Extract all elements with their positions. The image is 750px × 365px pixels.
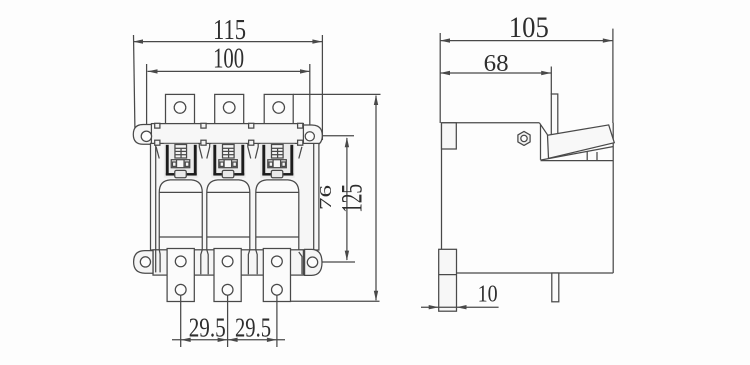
top terminal tab 1 xyxy=(166,94,195,123)
dim 76 bottom extension line (from right ear) xyxy=(318,261,356,263)
dim 100 extension line left xyxy=(146,64,148,133)
side body outline xyxy=(442,122,540,124)
dim 105 extension left xyxy=(439,33,441,123)
bottom bar left ear xyxy=(134,251,153,274)
svg-text:68: 68 xyxy=(484,51,509,77)
top bar small squares bottom row xyxy=(155,140,160,145)
top terminal tab 2 xyxy=(215,94,244,123)
svg-text:76: 76 xyxy=(316,185,335,210)
dim 105 extension right xyxy=(612,29,614,123)
dim 125 line xyxy=(375,96,377,301)
half funnel right wall xyxy=(299,147,302,159)
dim 100 line xyxy=(148,70,311,72)
svg-text:125: 125 xyxy=(336,184,369,213)
top mounting bar right ear xyxy=(303,125,322,146)
pole 1 xyxy=(159,144,202,274)
top bar left hole xyxy=(141,131,151,141)
half funnel left wall xyxy=(156,147,159,159)
dim 68 line xyxy=(440,72,551,74)
dim 29.5 line xyxy=(172,339,285,341)
dim 100 arrow right xyxy=(300,69,310,73)
lower diagonal plate xyxy=(541,147,614,161)
wedge at block left xyxy=(539,123,547,160)
top mounting bar xyxy=(151,124,303,144)
dim 100 extension line right xyxy=(309,64,311,134)
body inner wall right xyxy=(313,143,315,250)
pole edges through bar between tab1-tab2 xyxy=(201,250,202,274)
bottom mounting bar xyxy=(153,250,303,275)
bottom bar right ear xyxy=(305,249,322,275)
bottom terminal tab 3 xyxy=(263,249,290,302)
dim 115 line xyxy=(133,41,322,43)
bottom terminal tab 1 xyxy=(167,249,194,302)
svg-text:100: 100 xyxy=(213,43,244,75)
dim 10 xyxy=(421,306,439,308)
body inner wall left xyxy=(155,143,157,250)
dim 105 line xyxy=(440,40,613,42)
terminal blade (edge view) xyxy=(551,94,558,135)
svg-text:115: 115 xyxy=(213,14,246,46)
dim 68 extension right xyxy=(550,67,552,95)
dim 115 extension line right xyxy=(321,35,323,140)
dim 29.5 extension lines xyxy=(180,295,182,347)
top mounting bar left ear xyxy=(133,125,152,145)
svg-text:105: 105 xyxy=(509,11,549,44)
top bar right hole xyxy=(305,132,314,141)
svg-text:10: 10 xyxy=(478,282,498,308)
dim 76 top extension line xyxy=(313,135,354,137)
tilted block xyxy=(548,125,615,158)
bottom pin xyxy=(552,273,559,302)
svg-text:29.5: 29.5 xyxy=(189,313,226,343)
dim 115 arrow right xyxy=(312,39,322,43)
pole edges continuing through bottom bar, left wall xyxy=(155,250,157,272)
dim 100 arrow left xyxy=(148,69,158,73)
pole 2 xyxy=(207,144,250,274)
top bar small squares top row xyxy=(155,123,160,128)
pole 3 xyxy=(256,144,299,274)
funnel barrier 1 (between pole 1 and 2) xyxy=(199,144,209,159)
funnel barrier 2 (between pole 2 and 3) xyxy=(248,144,258,159)
bottom terminal tab 2 xyxy=(214,249,241,302)
internal horizontal line xyxy=(541,160,614,162)
dim 115 arrow left xyxy=(133,39,143,43)
main body xyxy=(151,143,319,250)
dim 115 extension line left xyxy=(134,35,136,135)
side top-left tab xyxy=(442,123,457,149)
pole edges through bar between tab2-tab3 xyxy=(248,250,249,274)
block legs xyxy=(586,152,588,161)
mounting foot xyxy=(439,249,457,311)
dim 125 bottom extension line xyxy=(291,300,380,302)
top terminal tab 3 xyxy=(264,94,293,123)
dim 125 top extension line xyxy=(293,93,380,95)
pole edge jog right side xyxy=(299,252,302,274)
svg-text:29.5: 29.5 xyxy=(235,313,271,343)
side hex nut xyxy=(518,131,530,145)
dim 76 line xyxy=(346,138,348,260)
